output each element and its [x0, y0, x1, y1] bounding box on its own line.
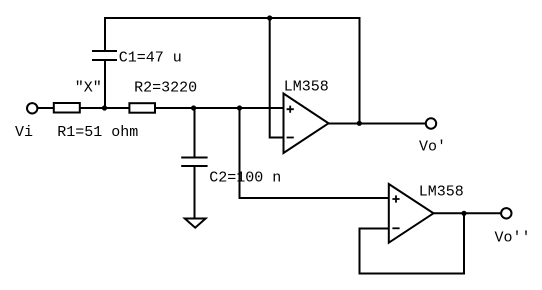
svg-text:Vi: Vi — [15, 124, 33, 141]
svg-text:C2=100 n: C2=100 n — [209, 170, 281, 187]
svg-text:LM358: LM358 — [419, 184, 464, 201]
svg-text:"X": "X" — [75, 80, 102, 97]
svg-text:C1=47 u: C1=47 u — [119, 50, 182, 67]
svg-text:LM358: LM358 — [284, 79, 329, 96]
svg-text:Vo'': Vo'' — [495, 230, 531, 247]
svg-text:Vo': Vo' — [419, 139, 446, 156]
svg-text:R1=51 ohm: R1=51 ohm — [57, 124, 138, 141]
svg-text:R2=3220: R2=3220 — [134, 80, 197, 97]
